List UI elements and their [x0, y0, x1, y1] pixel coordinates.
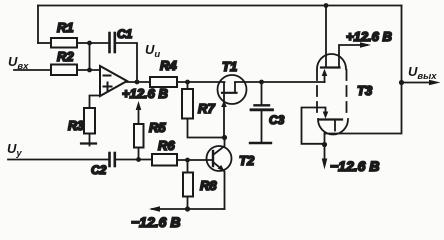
- node R6/R8/T2 base: [185, 158, 190, 163]
- wire top feedback rail: [38, 5, 402, 7]
- svg-text:R5: R5: [149, 120, 166, 135]
- svg-text:Т3: Т3: [357, 83, 373, 98]
- svg-text:Uи: Uи: [145, 42, 160, 60]
- supply -12.6 В rail (left arrow): [152, 208, 225, 210]
- resistor R5: [134, 124, 144, 148]
- svg-text:R4: R4: [160, 58, 177, 73]
- svg-text:C2: C2: [91, 163, 107, 177]
- T3 upper FET +12.6 lead: [339, 45, 367, 68]
- svg-text:+12.6 В: +12.6 В: [346, 29, 392, 44]
- svg-text:+12.6 В: +12.6 В: [122, 86, 168, 101]
- node T1 source / R7 / T2 collector: [222, 135, 227, 140]
- T3 lower FET gate arrow: [323, 112, 329, 119]
- T3 lower FET gate loop: [302, 108, 326, 144]
- transistor T1: [218, 75, 247, 104]
- output port U_вых (right arrow): [402, 82, 431, 84]
- node C3 tap: [259, 80, 264, 85]
- svg-text:C1: C1: [117, 27, 133, 41]
- node output tap: [399, 80, 404, 85]
- node inverting input: [87, 68, 92, 73]
- node -12.6 junction: [322, 142, 327, 147]
- resistor R4: [150, 77, 177, 87]
- svg-text:R8: R8: [200, 178, 217, 193]
- node R4/R7/T1 gate: [185, 80, 190, 85]
- svg-text:R7: R7: [198, 101, 215, 116]
- wire R6 to T2 base: [177, 159, 213, 161]
- wire R7 bottom to junction: [188, 119, 225, 138]
- capacitor C3: [261, 82, 263, 105]
- wire C2 to R6: [115, 159, 152, 161]
- wire T1 to T3 gate: [235, 81, 325, 83]
- svg-text:R6: R6: [158, 138, 175, 153]
- wire op-amp output to R4: [127, 81, 150, 83]
- supply -12.6 В at T3 (down arrow): [324, 145, 326, 163]
- T3 upper FET channel bar: [321, 66, 340, 68]
- wire non-inverting input to R3: [90, 96, 102, 109]
- svg-text:R1: R1: [57, 20, 74, 35]
- svg-text:−12.6 В: −12.6 В: [330, 158, 379, 174]
- node R1/C1/inverting input: [87, 41, 92, 46]
- node op-amp output: [135, 80, 140, 85]
- resistor R2: [51, 65, 77, 76]
- wire T3 source to output column: [325, 133, 401, 135]
- svg-text:R3: R3: [68, 119, 84, 133]
- capacitor C2: [108, 153, 111, 166]
- resistor R3: [84, 108, 95, 134]
- transistor T2: [207, 146, 232, 171]
- svg-text:Т2: Т2: [239, 153, 255, 168]
- wire R4 to T1 gate: [177, 81, 225, 83]
- wire inverting input drop: [89, 43, 91, 70]
- wire R2 to op-amp inverting input: [77, 69, 100, 71]
- svg-text:C3: C3: [269, 113, 285, 127]
- capacitor C1: [90, 42, 110, 44]
- ground: [89, 134, 91, 146]
- wire input U_вх: [14, 69, 51, 71]
- resistor R7: [187, 82, 189, 89]
- svg-text:Uвых: Uвых: [408, 64, 437, 82]
- T3 upper FET gate arrow: [324, 74, 326, 82]
- svg-text:Т1: Т1: [222, 59, 237, 74]
- wire feedback left drop: [37, 6, 39, 44]
- dual FET T3 envelope: [317, 54, 346, 69]
- resistor R6: [152, 154, 177, 166]
- resistor R1: [38, 42, 51, 44]
- wire output column: [401, 6, 403, 134]
- node R8 / -12.6 rail: [185, 206, 190, 211]
- wire input U_у: [8, 159, 110, 161]
- svg-text:Uу: Uу: [7, 141, 22, 159]
- node top rail / T3 drain junction: [324, 3, 329, 8]
- svg-text:−12.6 В: −12.6 В: [131, 214, 180, 230]
- svg-text:R2: R2: [57, 49, 74, 64]
- node C2/R5/R6: [136, 157, 141, 162]
- wire T3 source down lead: [324, 134, 326, 145]
- T3 lower FET inner stub: [334, 120, 336, 131]
- T3 upper FET drain lead to rail: [325, 6, 327, 68]
- T3 lower FET channel bar: [319, 118, 342, 120]
- op-amp U1: [100, 66, 127, 96]
- wire C1 to op-amp output: [115, 43, 137, 82]
- resistor R8: [187, 160, 189, 173]
